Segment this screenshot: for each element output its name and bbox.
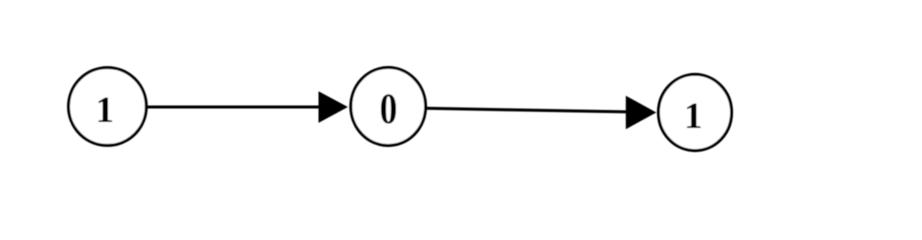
node 1 (state "1") (69, 68, 147, 146)
arrowhead 2 (626, 96, 657, 130)
svg-text:0: 0 (380, 85, 398, 133)
svg-text:1: 1 (684, 96, 703, 137)
arrowhead 1 (319, 91, 348, 123)
svg-text:1: 1 (95, 90, 114, 131)
wire arrow 2 shaft (426, 108, 629, 112)
node 2 (state "1") (658, 74, 731, 150)
node 0 (state "0") (351, 68, 426, 146)
wire arrow 1 shaft (145, 106, 322, 109)
